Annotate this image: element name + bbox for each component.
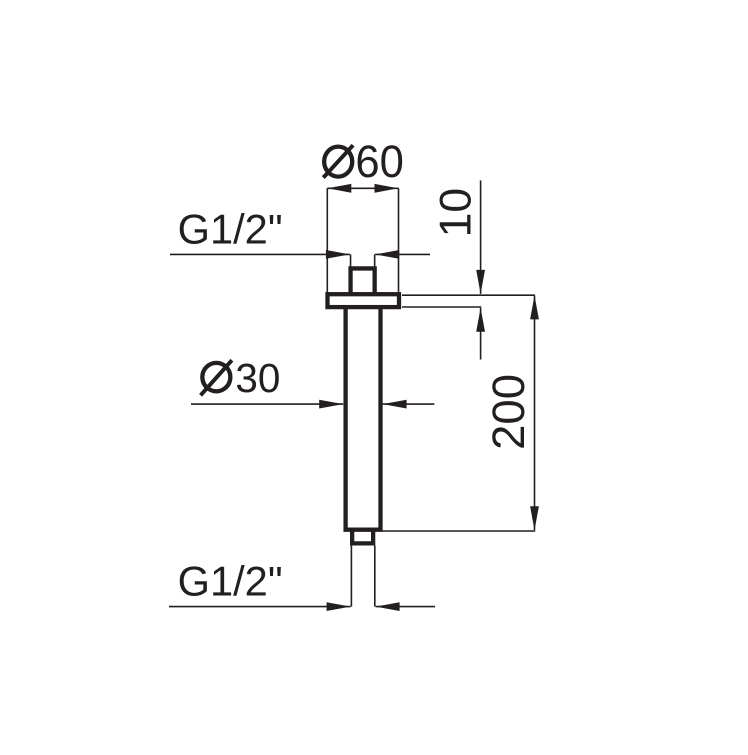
svg-text:60: 60 <box>355 136 404 187</box>
svg-text:10: 10 <box>431 188 480 238</box>
svg-text:30: 30 <box>235 355 280 401</box>
svg-text:G1/2": G1/2" <box>178 205 283 252</box>
svg-text:G1/2": G1/2" <box>178 557 283 604</box>
svg-text:200: 200 <box>483 374 534 450</box>
